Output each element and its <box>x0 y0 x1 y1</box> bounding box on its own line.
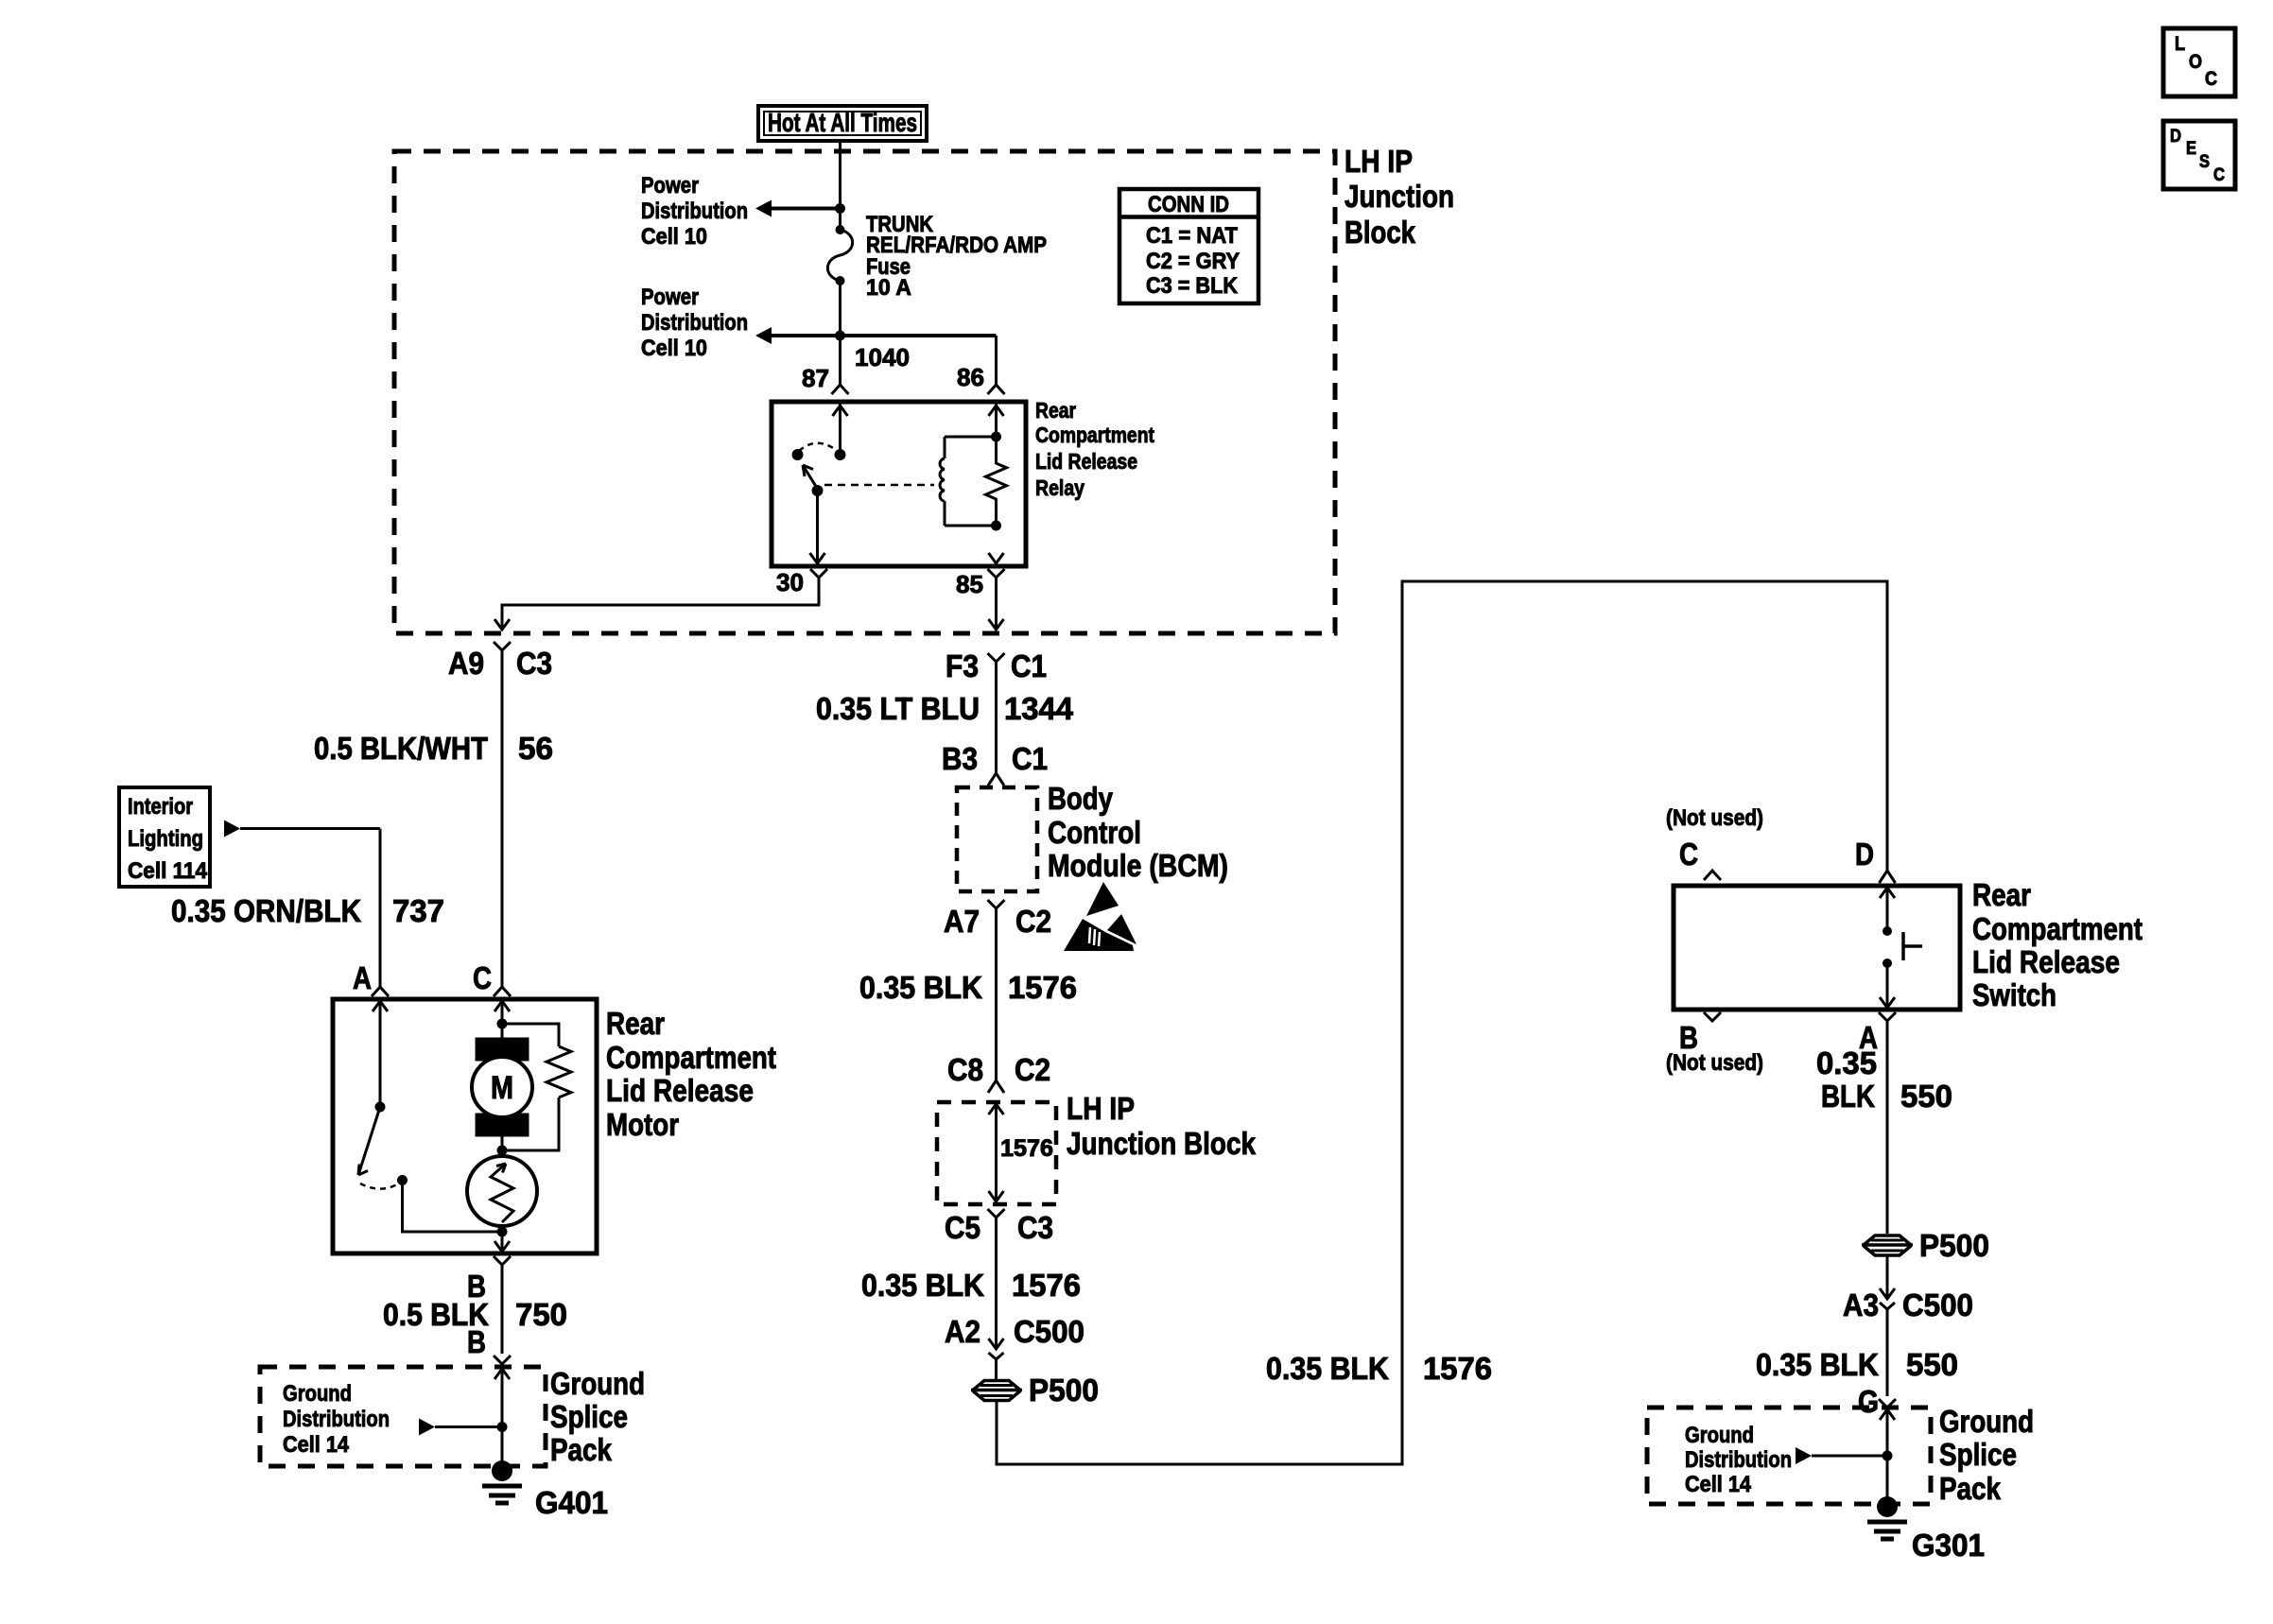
svg-text:Switch: Switch <box>1972 977 2056 1012</box>
svg-text:Interior: Interior <box>128 794 193 820</box>
svg-text:87: 87 <box>802 364 829 392</box>
svg-text:Hot At All Times: Hot At All Times <box>768 108 917 137</box>
svg-text:Power: Power <box>641 285 699 310</box>
svg-text:A2: A2 <box>945 1314 980 1349</box>
svg-text:Block: Block <box>1345 215 1416 250</box>
svg-text:Compartment: Compartment <box>1972 911 2143 946</box>
svg-text:Cell 14: Cell 14 <box>1685 1472 1752 1497</box>
svg-text:Distribution: Distribution <box>641 199 748 224</box>
svg-text:737: 737 <box>392 893 444 928</box>
svg-text:A9: A9 <box>448 646 484 681</box>
svg-text:C3 = BLK: C3 = BLK <box>1146 273 1239 299</box>
svg-text:C8: C8 <box>947 1052 983 1087</box>
svg-text:F3: F3 <box>946 648 979 683</box>
svg-text:G401: G401 <box>535 1485 608 1520</box>
svg-text:E: E <box>2186 139 2196 159</box>
svg-text:Splice: Splice <box>550 1399 628 1434</box>
svg-text:D: D <box>2170 127 2181 147</box>
svg-text:C3: C3 <box>516 646 552 681</box>
svg-text:0.35 BLK: 0.35 BLK <box>1266 1351 1389 1386</box>
svg-text:Lid Release: Lid Release <box>606 1073 754 1108</box>
svg-text:Distribution: Distribution <box>1685 1447 1792 1473</box>
svg-text:D: D <box>1855 837 1874 872</box>
svg-text:C2: C2 <box>1015 1052 1050 1087</box>
svg-text:P500: P500 <box>1029 1373 1099 1408</box>
svg-text:750: 750 <box>515 1297 567 1332</box>
svg-text:1576: 1576 <box>1423 1351 1492 1386</box>
svg-text:1576: 1576 <box>1012 1268 1081 1303</box>
svg-text:0.35 BLK: 0.35 BLK <box>1756 1347 1879 1382</box>
svg-text:Ground: Ground <box>283 1381 352 1407</box>
svg-text:Lid Release: Lid Release <box>1972 944 2120 979</box>
svg-text:C1: C1 <box>1012 741 1048 776</box>
svg-text:Cell 10: Cell 10 <box>641 336 707 361</box>
svg-text:Junction: Junction <box>1345 179 1454 214</box>
svg-text:B: B <box>467 1324 486 1359</box>
svg-text:Pack: Pack <box>550 1432 613 1467</box>
svg-text:Junction Block: Junction Block <box>1067 1126 1257 1161</box>
svg-text:Ground: Ground <box>1685 1423 1754 1448</box>
svg-text:C2: C2 <box>1015 904 1051 939</box>
svg-text:1576: 1576 <box>1000 1135 1053 1162</box>
svg-text:LH IP: LH IP <box>1345 144 1413 179</box>
svg-text:M: M <box>491 1070 513 1106</box>
svg-text:A: A <box>353 960 372 995</box>
svg-text:C2 = GRY: C2 = GRY <box>1146 249 1240 274</box>
svg-text:LH IP: LH IP <box>1067 1091 1135 1126</box>
svg-text:B3: B3 <box>942 741 978 776</box>
svg-text:Rear: Rear <box>1035 398 1076 423</box>
svg-text:86: 86 <box>957 363 984 391</box>
svg-text:(Not used): (Not used) <box>1666 1050 1763 1076</box>
svg-text:Cell 10: Cell 10 <box>641 224 707 250</box>
svg-text:Body: Body <box>1048 781 1114 816</box>
svg-text:85: 85 <box>956 570 983 598</box>
svg-text:0.35 LT BLU: 0.35 LT BLU <box>816 691 980 726</box>
svg-text:C3: C3 <box>1017 1210 1053 1245</box>
svg-text:C500: C500 <box>1902 1287 1973 1322</box>
svg-text:Compartment: Compartment <box>1035 423 1154 447</box>
svg-text:G301: G301 <box>1912 1528 1985 1563</box>
svg-text:A7: A7 <box>944 904 980 939</box>
svg-text:C: C <box>2213 165 2225 185</box>
svg-text:L: L <box>2175 33 2185 55</box>
svg-text:Relay: Relay <box>1035 475 1084 500</box>
svg-text:A3: A3 <box>1843 1287 1879 1322</box>
svg-text:Motor: Motor <box>606 1107 679 1142</box>
svg-text:30: 30 <box>776 568 804 596</box>
svg-text:C: C <box>473 960 492 995</box>
svg-text:C500: C500 <box>1014 1314 1084 1349</box>
svg-text:550: 550 <box>1906 1347 1958 1382</box>
svg-text:BLK: BLK <box>1821 1079 1875 1114</box>
svg-text:C1 = NAT: C1 = NAT <box>1146 223 1238 249</box>
svg-text:S: S <box>2199 152 2210 172</box>
svg-text:C5: C5 <box>945 1210 980 1245</box>
svg-text:0.35: 0.35 <box>1816 1045 1877 1080</box>
svg-text:G: G <box>1858 1384 1879 1419</box>
svg-text:Module (BCM): Module (BCM) <box>1048 848 1228 883</box>
svg-text:0.5 BLK/WHT: 0.5 BLK/WHT <box>314 731 488 766</box>
svg-text:P500: P500 <box>1919 1228 1989 1263</box>
svg-text:0.35 BLK: 0.35 BLK <box>861 1268 984 1303</box>
svg-text:0.35 BLK: 0.35 BLK <box>859 970 982 1005</box>
svg-text:(Not used): (Not used) <box>1666 805 1763 831</box>
svg-text:C: C <box>2205 68 2217 90</box>
svg-text:Control: Control <box>1048 815 1141 850</box>
svg-text:10 A: 10 A <box>866 275 911 301</box>
svg-text:Rear: Rear <box>1972 877 2031 912</box>
svg-text:0.35 ORN/BLK: 0.35 ORN/BLK <box>171 893 361 928</box>
svg-text:Cell 114: Cell 114 <box>128 858 208 884</box>
svg-text:Pack: Pack <box>1939 1471 2002 1506</box>
svg-text:C1: C1 <box>1011 648 1047 683</box>
svg-text:Power: Power <box>641 173 699 199</box>
svg-text:Distribution: Distribution <box>283 1407 390 1432</box>
svg-text:Cell 14: Cell 14 <box>283 1432 350 1458</box>
svg-text:CONN ID: CONN ID <box>1148 192 1229 217</box>
svg-text:1576: 1576 <box>1008 970 1077 1005</box>
svg-text:Lighting: Lighting <box>128 826 203 852</box>
svg-text:Splice: Splice <box>1939 1437 2017 1472</box>
svg-text:1040: 1040 <box>855 343 910 371</box>
svg-text:C: C <box>1679 837 1698 872</box>
svg-text:1344: 1344 <box>1004 691 1074 726</box>
svg-text:Ground: Ground <box>550 1366 645 1401</box>
svg-text:Rear: Rear <box>606 1006 665 1041</box>
svg-text:56: 56 <box>518 731 553 766</box>
svg-text:O: O <box>2189 51 2202 73</box>
svg-text:Lid Release: Lid Release <box>1035 449 1137 474</box>
svg-text:Ground: Ground <box>1939 1404 2034 1439</box>
svg-text:Distribution: Distribution <box>641 310 748 336</box>
svg-text:550: 550 <box>1900 1079 1952 1114</box>
svg-text:Compartment: Compartment <box>606 1040 776 1075</box>
